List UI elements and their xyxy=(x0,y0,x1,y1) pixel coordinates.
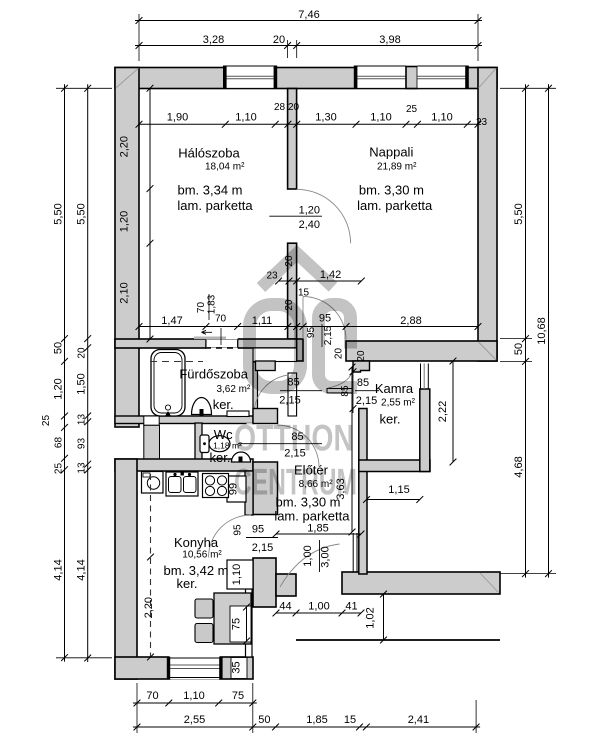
wall: bedroom-bathroom band xyxy=(115,339,297,348)
svg-text:2,55: 2,55 xyxy=(184,714,205,726)
svg-text:25: 25 xyxy=(54,463,65,475)
dim interior bedroom left vertical xyxy=(149,88,151,339)
svg-text:bm. 3,34 m: bm. 3,34 m xyxy=(177,183,242,198)
door D3 passage nappali-elotér arc 95 xyxy=(303,297,346,340)
svg-text:10,68: 10,68 xyxy=(536,317,548,345)
svg-text:5,50: 5,50 xyxy=(76,203,88,224)
window W3 nappali right: opening xyxy=(417,66,467,89)
svg-text:4,68: 4,68 xyxy=(513,456,525,477)
wall: partition bedroom/nappali lower xyxy=(288,243,297,339)
wall: kitchen bottom band xyxy=(115,657,253,679)
window W2/W3 jambs xyxy=(354,66,358,90)
svg-text:21,89 m²: 21,89 m² xyxy=(377,162,417,173)
svg-text:Kamra: Kamra xyxy=(375,381,414,396)
wall: right exterior xyxy=(478,68,497,362)
dim interior top row xyxy=(139,123,478,125)
wall: wc right with door opening xyxy=(247,423,254,425)
svg-text:25: 25 xyxy=(41,415,52,427)
wc right block a xyxy=(253,409,278,424)
dim 3,63 vertical xyxy=(351,367,353,532)
fixture: chair 2 xyxy=(195,624,213,643)
svg-text:70: 70 xyxy=(146,690,158,702)
kitchen dashed beam line xyxy=(150,474,152,657)
svg-text:2,22: 2,22 xyxy=(437,401,449,422)
door D1 bedroom-nappali arc 1,20 xyxy=(297,189,351,243)
svg-text:10,56 m²: 10,56 m² xyxy=(182,550,222,561)
svg-text:lam. parketta: lam. parketta xyxy=(274,509,350,524)
svg-text:18,04 m²: 18,04 m² xyxy=(205,162,245,173)
dim interior bedroom bottom row xyxy=(139,326,478,328)
door D7 entry arc 1,00 xyxy=(280,544,340,587)
dim kitchen 2,20 dashed ticks xyxy=(147,554,154,561)
wall: entry bottom band xyxy=(342,572,500,594)
wall: left exterior xyxy=(115,68,139,428)
dim top 7,46 xyxy=(135,20,482,22)
svg-text:1,10: 1,10 xyxy=(183,690,204,702)
svg-text:lam. parketta: lam. parketta xyxy=(357,198,433,213)
svg-text:ker.: ker. xyxy=(177,576,198,591)
door D2 arrow xyxy=(202,330,213,334)
svg-text:3,62 m²: 3,62 m² xyxy=(216,384,251,395)
svg-text:Fürdőszoba: Fürdőszoba xyxy=(179,366,248,381)
dim left outer chain xyxy=(64,84,66,661)
wall: cross block kitchen/elotér xyxy=(253,558,276,607)
svg-text:1,15: 1,15 xyxy=(388,484,409,496)
shaft gray strip xyxy=(144,425,160,462)
vertical 85 tick line kamra door xyxy=(352,367,354,413)
wall: kamra left upper stub xyxy=(353,361,370,372)
svg-text:5,50: 5,50 xyxy=(513,203,525,224)
dim 2,22 vertical xyxy=(452,361,454,462)
svg-text:1,30: 1,30 xyxy=(315,112,336,124)
wall: bathroom right thin wall xyxy=(253,362,258,417)
svg-text:44: 44 xyxy=(279,601,291,613)
notch step below niche xyxy=(256,361,276,371)
svg-text:1,20: 1,20 xyxy=(119,211,131,232)
svg-text:2,20: 2,20 xyxy=(143,597,155,618)
svg-text:68: 68 xyxy=(54,437,65,449)
svg-text:1,85: 1,85 xyxy=(307,523,328,535)
svg-text:Konyha: Konyha xyxy=(174,535,219,550)
dim bottom inner 70 1,10 75 xyxy=(133,702,257,704)
svg-text:1,50: 1,50 xyxy=(76,373,88,394)
svg-text:1,90: 1,90 xyxy=(167,112,188,124)
svg-text:bm. 3,30 m: bm. 3,30 m xyxy=(359,183,424,198)
svg-text:4,14: 4,14 xyxy=(76,559,88,580)
svg-text:7,46: 7,46 xyxy=(298,9,319,21)
wall: bath-wc band xyxy=(115,416,253,424)
wall: passage left jamb xyxy=(297,339,303,361)
dim right outer chain xyxy=(525,84,527,577)
svg-text:3,98: 3,98 xyxy=(379,34,400,46)
svg-text:1,47: 1,47 xyxy=(161,315,182,327)
svg-text:ker.: ker. xyxy=(210,450,231,465)
svg-text:23: 23 xyxy=(476,117,488,128)
pillar 25 between windows xyxy=(406,67,417,89)
svg-text:1,10: 1,10 xyxy=(370,112,391,124)
svg-text:41: 41 xyxy=(345,601,357,613)
svg-text:35: 35 xyxy=(231,661,243,673)
svg-text:50: 50 xyxy=(258,714,270,726)
svg-text:1,10: 1,10 xyxy=(235,112,256,124)
pass-box 99 white xyxy=(227,476,246,502)
corner marker top-left xyxy=(116,68,139,88)
wall: kitchen left xyxy=(115,459,137,679)
dim elotér 1,85 xyxy=(276,533,361,535)
watermark xyxy=(234,254,357,503)
door D4 bathroom leaf xyxy=(288,373,297,416)
svg-text:4,14: 4,14 xyxy=(53,559,65,580)
svg-text:3,00: 3,00 xyxy=(320,546,332,567)
fixture: kitchen table xyxy=(214,593,251,644)
dim 1,02 vertical xyxy=(383,594,385,640)
svg-text:1,85: 1,85 xyxy=(306,714,327,726)
svg-text:13: 13 xyxy=(77,414,88,426)
wall: nappali bottom band xyxy=(346,341,497,361)
svg-text:13: 13 xyxy=(77,462,88,474)
label 35 rotated in box xyxy=(231,658,247,679)
dim bottom outer 2,55 50 1,85 15 2,41 xyxy=(133,726,480,728)
svg-text:2,10: 2,10 xyxy=(119,282,131,303)
svg-text:70: 70 xyxy=(215,314,227,325)
fixture: kitchen double sink xyxy=(166,472,198,496)
wall: kitchen right lower thin xyxy=(246,589,253,657)
wall: kitchen right upper xyxy=(245,471,253,515)
svg-text:93: 93 xyxy=(77,438,88,450)
svg-text:75: 75 xyxy=(231,618,243,630)
wall: kamra left lower xyxy=(359,409,367,575)
door D5 wc arc xyxy=(278,425,320,467)
dim entry 44 1,00 41 xyxy=(276,612,361,614)
wall: wc bottom / kitchen top band xyxy=(115,459,253,471)
door D4 bathroom arc xyxy=(254,375,288,412)
door D2 dashed opening line xyxy=(205,347,239,349)
svg-text:1,20: 1,20 xyxy=(53,378,65,399)
svg-text:2,40: 2,40 xyxy=(299,219,320,231)
svg-text:50: 50 xyxy=(53,342,65,354)
corner marker kitchen bottom-left xyxy=(116,658,136,678)
dim elotér 1,15 xyxy=(367,499,420,501)
svg-text:2,15: 2,15 xyxy=(356,395,377,407)
watermark roof chevron xyxy=(261,254,333,288)
fixture: wc toilet tank xyxy=(200,435,209,453)
window W4 jambs xyxy=(167,657,170,680)
wall: wc left xyxy=(195,423,202,462)
dim partition 23/1,42 row xyxy=(279,280,362,282)
fixture: wc basin xyxy=(232,452,251,462)
svg-text:OTTHON: OTTHON xyxy=(234,418,354,459)
svg-text:1,10: 1,10 xyxy=(431,112,452,124)
watermark C glyph xyxy=(319,305,358,388)
fixture: bathtub xyxy=(151,350,185,417)
fixture: wc toilet bowl xyxy=(209,436,230,452)
svg-text:1,20: 1,20 xyxy=(299,204,320,216)
fixture: kitchen cabinet with circle xyxy=(142,472,164,494)
svg-text:95: 95 xyxy=(252,524,264,536)
fixture: bathroom radiator xyxy=(227,411,249,417)
svg-text:2,88: 2,88 xyxy=(400,315,421,327)
svg-text:20: 20 xyxy=(334,348,345,360)
svg-text:15: 15 xyxy=(298,288,310,299)
svg-text:85: 85 xyxy=(357,377,369,389)
window W1 jambs xyxy=(223,66,227,90)
dim right inner chain xyxy=(548,84,550,577)
svg-text:1,00: 1,00 xyxy=(308,601,329,613)
door D8 kamra arc xyxy=(328,372,353,389)
wc-kitchen block b xyxy=(253,462,278,515)
wall: entry left jamb stub 44 xyxy=(276,574,296,596)
pass-box 1,10 white xyxy=(227,560,253,589)
svg-text:70: 70 xyxy=(196,302,207,314)
svg-text:20: 20 xyxy=(288,102,300,113)
svg-text:1,00: 1,00 xyxy=(302,545,314,566)
terrace line bottom xyxy=(296,639,500,641)
svg-text:20: 20 xyxy=(77,347,88,359)
bathroom dashed lintel line xyxy=(150,361,203,363)
wall: partition bedroom/nappali upper xyxy=(288,89,297,190)
svg-text:2,15: 2,15 xyxy=(279,395,300,407)
window W2 nappali left: opening xyxy=(356,66,406,89)
door D8 kamra leaf xyxy=(327,389,352,393)
svg-text:CENTRUM: CENTRUM xyxy=(234,462,357,503)
dim kitchen 75 vertical xyxy=(230,606,251,642)
corner marker top-right xyxy=(479,68,497,88)
wall: top exterior band xyxy=(115,68,497,89)
dim top 3,28 20 3,98 xyxy=(135,45,482,47)
svg-text:20: 20 xyxy=(273,34,285,46)
svg-text:1,02: 1,02 xyxy=(365,607,377,628)
svg-text:1,10: 1,10 xyxy=(231,564,243,585)
door D2 bedroom-bath opening 70 xyxy=(206,338,238,349)
svg-text:5,50: 5,50 xyxy=(53,203,65,224)
wall: kamra right xyxy=(420,389,430,472)
corner marker nappali bottom-right xyxy=(479,342,497,360)
fixture: bathroom washbasin xyxy=(192,398,212,415)
fixture: stove 4 burners xyxy=(203,474,229,498)
svg-text:28: 28 xyxy=(274,102,286,113)
svg-text:2,20: 2,20 xyxy=(119,136,131,157)
svg-text:lam. parketta: lam. parketta xyxy=(177,198,253,213)
door D6 kitchen arc 95 xyxy=(209,515,252,558)
dim left inner chain xyxy=(87,84,89,662)
door D2 sliding leaf bar xyxy=(194,337,226,340)
svg-text:2,41: 2,41 xyxy=(408,714,429,726)
svg-text:Hálószoba: Hálószoba xyxy=(178,146,240,161)
window W1 bedroom: opening xyxy=(225,66,275,89)
svg-text:2,55 m²: 2,55 m² xyxy=(381,398,416,409)
svg-text:2,15: 2,15 xyxy=(252,542,273,554)
niche above bathroom thin wall xyxy=(253,348,297,362)
svg-text:75: 75 xyxy=(232,690,244,702)
svg-text:95: 95 xyxy=(233,524,244,536)
svg-text:ker.: ker. xyxy=(213,397,234,412)
shaft window white box xyxy=(144,416,159,425)
svg-text:15: 15 xyxy=(344,714,356,726)
wall: kamra bottom band xyxy=(359,460,430,472)
door D2 extension line xyxy=(220,328,222,345)
corner marker entry band right xyxy=(480,573,499,593)
fixture: chair 1 xyxy=(195,599,213,618)
svg-text:20: 20 xyxy=(356,350,367,362)
kamra vent window above right wall xyxy=(420,364,422,390)
svg-text:1,83: 1,83 xyxy=(207,294,218,314)
watermark O glyph xyxy=(250,305,301,388)
svg-text:25: 25 xyxy=(406,104,418,115)
svg-text:50: 50 xyxy=(513,343,525,355)
window W4 kitchen: opening xyxy=(169,656,220,680)
svg-text:ker.: ker. xyxy=(380,412,401,427)
svg-text:Nappali: Nappali xyxy=(369,145,413,160)
entry jamb double line xyxy=(352,533,354,572)
svg-text:3,28: 3,28 xyxy=(203,34,224,46)
